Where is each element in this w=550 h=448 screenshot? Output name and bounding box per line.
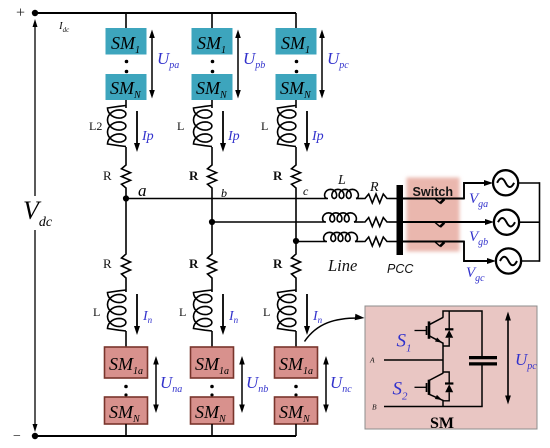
wire: inductor to arm resistor upper phase a [125,147,127,163]
switch blade row 3 [435,242,445,247]
arm inductor lower phase a L [108,290,127,331]
node b midpoint dot [209,219,215,225]
wire: source 1 to right bus [518,182,540,184]
arm inductor lower phase c L [278,290,297,331]
arm current arrow I_n phase b [220,294,226,335]
arrowhead into source 3 [487,258,496,264]
wire: S2 emitter to bottom rail [442,400,444,407]
wire: source 3 to right bus [521,260,540,262]
submodule block SMN upper arm phase c [276,74,317,101]
wire: inductor to line resistor row 3 [355,241,363,243]
svg-text:R: R [369,180,379,195]
line inductor L row 1 [325,189,359,198]
svg-text:Switch: Switch [413,185,454,199]
arm inductor upper phase c L [278,106,297,147]
wire: SMN to arm inductor phase a [125,100,127,108]
wire: grid right return bus [539,182,541,262]
arm inductor upper phase a L2 [108,106,127,147]
arm voltage arrow U_pa [149,30,155,99]
line inductor L row 3 [324,232,358,241]
wire: SMN to arm inductor phase c [295,100,297,108]
wire: phase a upper arm from DC+ bus [125,13,127,28]
ellipsis dots between submodules lower arm phase b [210,385,214,397]
wire: top DC bus [35,12,296,14]
arm resistor R lower phase b [208,252,217,280]
arm current arrow Ip phase b [220,111,226,152]
PCC bus bar [397,185,404,255]
wire: inductor to SM1a lower phase a [125,331,127,347]
ellipsis dots between submodules upper arm phase c [295,60,299,74]
wire: PCC to switch row 3 [403,241,464,243]
arm inductor upper phase b L [194,106,213,147]
arm voltage arrow U_nc [323,356,329,413]
node: DC positive terminal dot [32,10,38,16]
submodule block SMN upper arm phase a [106,74,147,101]
arm voltage arrow U_nb [239,356,245,413]
svg-text:Ip: Ip [311,129,324,144]
wire: inductor to arm resistor upper phase c [295,147,297,163]
callout arrow from SM1a to SM detail [305,314,365,342]
arm resistor R upper phase b [208,163,217,190]
submodule block SM1a lower arm phase c [275,347,318,378]
svg-text:Ip: Ip [141,129,154,144]
arm voltage arrow U_pc [319,30,325,99]
svg-text:c: c [303,184,309,198]
arm current arrow I_n phase a [134,294,140,335]
line resistor R row 3 [363,237,389,246]
wire: switch row 1 riser to source Vga [464,183,488,199]
svg-text:L: L [179,305,186,319]
arm resistor R upper phase c [292,163,301,190]
wire: terminal A to midpoint [384,359,443,361]
arm resistor R lower phase c [292,252,301,280]
wire: bottom DC bus [35,435,296,437]
diode D2 antiparallel with S2 [443,372,453,401]
switch blade row 1 [435,199,445,204]
svg-text:Ip: Ip [227,129,240,144]
wire: terminal B bottom rail [384,406,483,408]
wire: resistor to inductor lower phase c [295,280,297,292]
switch highlight shading [407,178,460,252]
submodule block SM1 upper arm phase a [106,28,147,56]
submodule block SM1 upper arm phase c [276,28,317,56]
arrowhead into source 1 [484,180,493,186]
wire: phase c upper arm from DC+ bus [295,13,297,28]
wire: phase a leg through midpoint node [125,190,127,252]
IGBT S1 [415,317,444,343]
svg-text:L: L [337,173,346,188]
submodule block SMN lower arm phase a [105,397,148,425]
arm current arrow I_n phase c [304,294,310,335]
line inductor L row 2 [323,213,357,222]
wire: inductor to line resistor row 1 [356,198,363,200]
wire: phase b leg through midpoint node [211,190,213,252]
Vdc measurement arrow (double-headed) [33,19,38,432]
submodule block SMN lower arm phase c [275,397,318,425]
capacitor C of submodule [469,358,497,364]
submodule block SM1 upper arm phase b [192,28,233,56]
wire: SMN to DC- bus phase b [211,424,213,436]
submodule block SMN upper arm phase b [192,74,233,101]
wire: SMN to arm inductor phase b [211,100,213,108]
ellipsis dots between submodules upper arm phase a [125,60,129,74]
svg-text:L2: L2 [89,119,102,133]
wire: inductor to arm resistor upper phase b [211,147,213,163]
AC source V_gb [494,210,519,235]
switch blade row 2 [435,222,445,227]
svg-text:−: − [13,429,21,444]
wire: S1 emitter to midpoint [442,343,444,361]
wire: phase a output line to grid inductor [126,198,328,200]
svg-text:a: a [138,181,147,200]
wire: top rail collector to capacitor [443,311,482,356]
diode D1 antiparallel with S1 [443,311,453,346]
wire: capacitor bottom to rail [481,364,483,407]
svg-text:R: R [273,168,283,183]
arm current arrow Ip phase c [304,111,310,152]
submodule block SMN lower arm phase b [191,397,234,425]
svg-text:L: L [261,119,268,133]
svg-text:L: L [93,305,100,319]
arm voltage arrow U_pb [235,30,241,99]
svg-text:R: R [273,256,283,271]
arm inductor lower phase b L [194,290,213,331]
wire: resistor to inductor lower phase b [211,280,213,292]
AC source V_gc [496,248,521,273]
wire: inductor to SM1a lower phase b [211,331,213,347]
svg-text:L: L [263,305,270,319]
wire: phase b output line to grid inductor [212,221,326,223]
wire: source 2 to right bus [519,221,540,223]
SM detail box [365,306,537,429]
svg-text:L: L [177,119,184,133]
IGBT S2 [415,373,444,400]
wire: SMN to DC- bus phase c [295,424,297,436]
ellipsis dots between submodules lower arm phase a [124,385,128,397]
svg-text:PCC: PCC [387,262,414,276]
wire: phase c leg through midpoint node [295,190,297,252]
wire: SMN to DC- bus phase a [125,424,127,436]
node: DC negative terminal dot [32,433,38,439]
wire: resistor to PCC bar row 3 [389,241,397,243]
svg-text:R: R [189,168,199,183]
wire: phase b upper arm from DC+ bus [211,13,213,28]
wire: switch row 3 dropper to source Vgc [464,241,489,261]
wire: PCC to switch row 1 [403,198,464,200]
line resistor R row 2 [363,218,389,227]
arm current arrow Ip phase a [134,111,140,152]
svg-text:B: B [372,403,377,412]
node a midpoint dot [123,195,129,201]
submodule voltage arrow U_pc [505,312,511,405]
svg-text:+: + [16,5,25,22]
svg-text:R: R [103,168,112,183]
wire: phase c output line to grid inductor [296,241,327,243]
svg-text:SM: SM [430,415,454,432]
arm resistor R upper phase a [122,163,131,190]
wire: PCC to switch row 2 [403,221,487,223]
wire: inductor to line resistor row 2 [354,221,363,223]
submodule block SM1a lower arm phase b [191,347,234,378]
svg-text:A: A [369,356,375,365]
node c midpoint dot [293,238,299,244]
arrowhead into source 2 [485,219,494,225]
arm resistor R lower phase a [122,252,131,280]
ellipsis dots between submodules upper arm phase b [211,60,215,74]
wire: resistor to PCC bar row 2 [389,221,397,223]
submodule block SM1a lower arm phase a [105,347,148,378]
wire: S2 collector to midpoint [442,360,444,374]
line resistor R row 1 [363,194,389,203]
wire: resistor to inductor lower phase a [125,280,127,292]
svg-text:R: R [189,256,199,271]
wire: inductor to SM1a lower phase c [295,331,297,347]
svg-text:Line: Line [327,256,357,275]
svg-text:R: R [103,256,112,271]
AC source V_ga [493,170,518,195]
arm voltage arrow U_na [153,356,159,413]
wire: resistor to PCC bar row 1 [389,198,397,200]
ellipsis dots between submodules lower arm phase c [294,385,298,397]
